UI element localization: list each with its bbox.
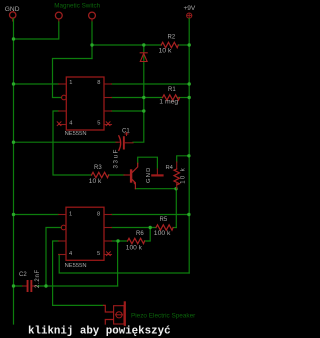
- U1 pin5 x mark: [106, 122, 110, 126]
- wire R4 bottom riser down to R5 right: [175, 189, 177, 228]
- svg-text:Magnetic Switch: Magnetic Switch: [54, 2, 100, 9]
- wire Q1 collector to GND symbol: [138, 157, 158, 169]
- capacitor C1: [113, 129, 133, 169]
- resistor R4: [166, 162, 187, 189]
- svg-text:R5: R5: [160, 217, 168, 223]
- wire Q1 emitter to R4 bottom: [135, 188, 176, 190]
- wire R1 left lead: [144, 97, 163, 99]
- svg-text:R4: R4: [166, 165, 174, 171]
- transistor Q1: [124, 163, 138, 189]
- wire R4 top to +9V rail: [177, 156, 189, 162]
- svg-text:100 k: 100 k: [126, 244, 143, 251]
- svg-text:10 k: 10 k: [159, 48, 172, 55]
- op-amp timer U1 NE555N box: [65, 77, 104, 137]
- magnetic switch pin 2: [89, 12, 96, 22]
- resistor R5: [154, 217, 173, 237]
- wire rail to IC2 pin top-left: [14, 214, 59, 216]
- svg-text:NE555N: NE555N: [65, 263, 87, 269]
- wire R5 right lead riser: [173, 227, 176, 229]
- wire rail to IC1 pin top-left: [14, 83, 59, 85]
- wire node rail x=143.8 diode to C1: [133, 45, 144, 142]
- svg-text:2.2nF: 2.2nF: [35, 269, 41, 288]
- magnetic switch pin 1: [55, 12, 62, 22]
- wire R3 to Q1 base: [109, 174, 125, 176]
- wire IC2 right pin to R5 node: [112, 227, 157, 229]
- svg-text:8: 8: [97, 80, 100, 86]
- svg-text:GND: GND: [146, 167, 152, 183]
- wire switch1 to rail: [14, 22, 59, 39]
- wire GND rail x=13.5: [13, 19, 15, 324]
- svg-text:1: 1: [69, 80, 72, 86]
- svg-text:5: 5: [97, 251, 100, 257]
- svg-text:1 meg: 1 meg: [159, 98, 178, 105]
- wire +9V rail x=189.2: [188, 19, 190, 273]
- svg-text:5: 5: [97, 121, 100, 127]
- U2 pin stubs: [59, 215, 112, 255]
- svg-text:10 k: 10 k: [180, 167, 186, 184]
- svg-text:10 k: 10 k: [89, 178, 102, 185]
- U1 trigger bubble: [62, 95, 67, 100]
- svg-text:C2: C2: [19, 272, 27, 278]
- wire C2 left lead to rail: [14, 285, 23, 287]
- U1 pin stubs: [59, 84, 112, 125]
- svg-text:kliknij aby powiększyć: kliknij aby powiększyć: [28, 326, 171, 338]
- wire IC2 pin top-right to +9V rail: [112, 214, 189, 216]
- svg-text:+9V: +9V: [184, 5, 196, 12]
- wire IC1 right pin2 to node rail: [112, 97, 144, 99]
- diode D1: [140, 53, 147, 62]
- U2 trigger bubble: [61, 225, 66, 230]
- wire IC1 pin top-right to +9V rail: [112, 83, 190, 85]
- wire IC1 pin3 to R3: [53, 111, 92, 175]
- resistor R1: [159, 87, 179, 105]
- svg-text:R1: R1: [168, 87, 176, 93]
- U1 pin4 x mark: [57, 122, 61, 126]
- svg-text:4: 4: [69, 251, 72, 257]
- capacitor C2: [19, 269, 41, 292]
- wire R6 node riser down to C2 wire: [117, 241, 119, 286]
- svg-text:Piezo Electric Speaker: Piezo Electric Speaker: [131, 313, 196, 320]
- resistor R3: [89, 165, 109, 185]
- power pin +9V: [184, 5, 196, 18]
- svg-text:NE555N: NE555N: [65, 131, 87, 137]
- wire IC2 pin to piezo feed: [53, 241, 104, 305]
- wire R2 right lead to +9V rail: [178, 44, 189, 46]
- svg-text:1: 1: [69, 212, 72, 218]
- svg-text:4: 4: [69, 121, 72, 127]
- svg-text:100 k: 100 k: [154, 230, 171, 237]
- svg-text:R6: R6: [136, 231, 144, 237]
- wire C2 right to piezo riser corner: [36, 285, 118, 287]
- wire jog switch2 to IC1 trigger bubble: [53, 59, 93, 98]
- timer U2 NE555N box: [65, 207, 104, 269]
- resistor R6: [126, 231, 145, 251]
- wire IC1 right pin to node rail: [112, 110, 144, 112]
- ground symbol at Q1 collector: [146, 167, 164, 183]
- U2 pin5 x mark: [107, 252, 111, 256]
- ground pin GND: [5, 6, 20, 21]
- svg-text:R2: R2: [168, 35, 176, 41]
- wire switch2 down: [91, 22, 93, 59]
- wire R6 right lead up to R5 node: [145, 228, 151, 242]
- svg-text:33uF: 33uF: [113, 148, 120, 169]
- wire rail to C1 left plate: [14, 141, 118, 143]
- svg-text:8: 8: [97, 212, 100, 218]
- resistor R2: [159, 35, 179, 55]
- svg-text:R3: R3: [94, 165, 102, 171]
- wire switch node to diode and R2: [92, 44, 161, 46]
- piezo electric speaker SP1: [104, 302, 125, 324]
- wire R1 right lead to +9V rail: [178, 97, 190, 99]
- wire IC2 bubble to C2 node: [46, 228, 61, 287]
- wire IC2 pin4 to +9V rail bottom: [59, 255, 190, 274]
- wire IC2 right pin to R6: [112, 240, 128, 242]
